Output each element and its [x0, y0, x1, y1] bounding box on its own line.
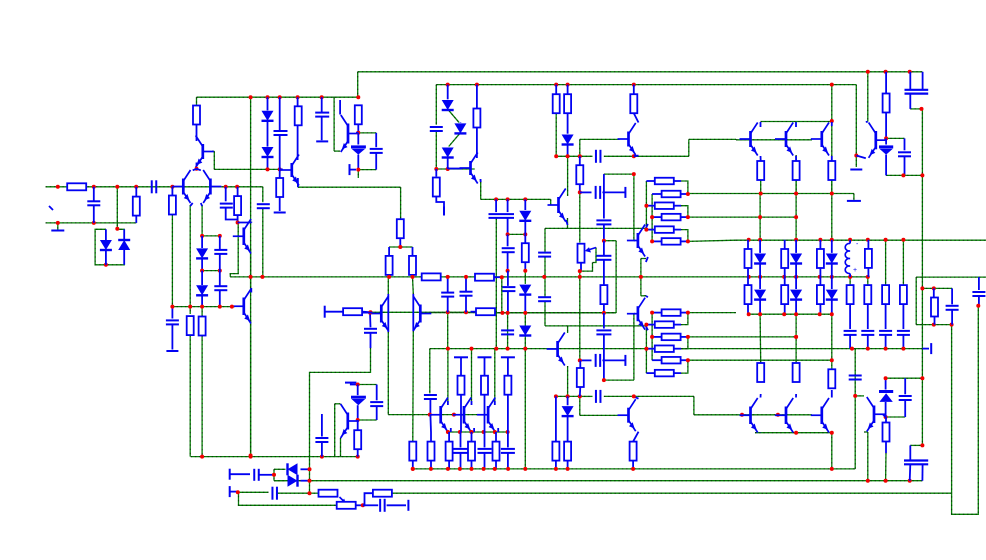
- wire: [310, 492, 319, 494]
- resistor R34: [828, 161, 835, 180]
- junction: [296, 95, 300, 99]
- junction: [602, 239, 606, 243]
- wire: [640, 259, 642, 296]
- junction: [434, 167, 438, 171]
- resistor ladder: [655, 321, 674, 328]
- resistor ladder: [655, 370, 674, 377]
- capacitor C37: [501, 330, 514, 334]
- resistor ladder: [662, 238, 681, 245]
- wire driver bias return: [310, 348, 371, 469]
- wire: [694, 414, 736, 416]
- junction: [542, 275, 546, 279]
- junction: [500, 311, 504, 315]
- capacitor output: [501, 449, 515, 453]
- terminal bar: [478, 356, 492, 358]
- junction: [494, 197, 498, 201]
- junction: [458, 430, 462, 434]
- wire: [357, 97, 359, 99]
- capacitor C27: [898, 152, 911, 156]
- junction: [554, 394, 558, 398]
- diode D5: [196, 248, 208, 258]
- junction: [578, 275, 582, 279]
- junction: [92, 185, 96, 189]
- wire upper-lower junction bus: [430, 348, 923, 350]
- junction: [639, 275, 643, 279]
- junction: [747, 238, 751, 242]
- wire emitter bus: [448, 431, 508, 433]
- wire: [633, 174, 635, 240]
- junction: [830, 358, 834, 362]
- resistor R43 trimmer: [337, 502, 356, 509]
- wire: [795, 155, 797, 217]
- junction: [644, 347, 648, 351]
- wire bus1: [412, 468, 855, 470]
- capacitor C40: [166, 320, 179, 324]
- wire: [681, 337, 688, 349]
- wire: [238, 492, 336, 505]
- junction: [200, 269, 204, 273]
- wire: [412, 277, 415, 294]
- wire: [447, 349, 449, 401]
- wire: [831, 121, 833, 194]
- resistor R13: [473, 109, 480, 128]
- terminal out+: [229, 469, 231, 480]
- capacitor C35: [272, 487, 277, 500]
- diode D9: [442, 148, 454, 158]
- junction: [932, 286, 936, 290]
- junction: [644, 228, 648, 232]
- resistor R24: [600, 285, 607, 304]
- diode D13: [562, 406, 574, 416]
- junction: [578, 394, 582, 398]
- junction: [188, 305, 192, 309]
- junction: [920, 286, 924, 290]
- junction: [218, 269, 222, 273]
- junction: [884, 238, 888, 242]
- junction: [578, 269, 582, 273]
- resistor output net: [882, 285, 889, 304]
- wire: [447, 313, 449, 349]
- transistor Q14: [618, 399, 636, 431]
- diode D6: [196, 285, 208, 295]
- junction: [650, 215, 654, 219]
- wire: [855, 85, 857, 156]
- wire: [855, 156, 857, 168]
- wire: [902, 240, 904, 285]
- resistor output net: [847, 285, 854, 304]
- resistor pair upper: [781, 249, 788, 268]
- resistor R15: [522, 243, 529, 262]
- wire: [544, 301, 546, 326]
- resistor output net: [864, 285, 871, 304]
- wire: [544, 228, 546, 252]
- junction: [650, 335, 654, 339]
- wire: [507, 313, 509, 349]
- resistor emitter: [428, 442, 435, 461]
- wire right bus 2: [951, 325, 953, 494]
- junction: [218, 305, 222, 309]
- junction: [506, 232, 510, 236]
- junction: [866, 238, 870, 242]
- capacitor C11 C12 pair: [489, 214, 515, 218]
- resistor R19: [553, 94, 560, 113]
- diode pair lower: [790, 290, 802, 300]
- wire: [435, 85, 437, 125]
- capacitor output net: [879, 331, 892, 335]
- junction: [782, 312, 786, 316]
- junction: [506, 467, 510, 471]
- junction: [686, 311, 690, 315]
- wire: [579, 139, 581, 156]
- junction: [794, 238, 798, 242]
- junction: [830, 192, 834, 196]
- transistor Q15 driver: [370, 296, 388, 331]
- junction: [747, 312, 751, 316]
- wire: [832, 193, 854, 195]
- junction: [236, 490, 240, 494]
- junction: [830, 467, 834, 471]
- junction: [632, 154, 636, 158]
- resistor R17: [343, 308, 362, 315]
- wire: [681, 360, 688, 373]
- junction: [56, 221, 60, 225]
- wire: [471, 349, 473, 401]
- wire: [340, 438, 342, 457]
- resistor ladder: [662, 191, 681, 198]
- junction: [908, 479, 912, 483]
- transistor Q25: [740, 398, 758, 433]
- wire: [387, 332, 389, 415]
- diode D15: [288, 475, 298, 487]
- wire: [358, 132, 376, 134]
- junction: [446, 347, 450, 351]
- junction: [794, 312, 798, 316]
- junction: [976, 304, 980, 308]
- capacitor C36: [380, 499, 385, 512]
- junction: [566, 154, 570, 158]
- junction: [884, 479, 888, 483]
- wire: [555, 113, 557, 156]
- wire: [604, 173, 634, 175]
- terminal: [407, 500, 409, 511]
- transistor Q16 driver: [413, 296, 431, 331]
- diode pair upper: [790, 254, 802, 264]
- wire: [238, 491, 269, 493]
- capacitor C3 bias: [274, 131, 288, 135]
- trimmer arrow: [587, 248, 597, 251]
- wire jog to main: [230, 223, 238, 277]
- wire: [795, 314, 797, 363]
- capacitor C21: [596, 330, 611, 334]
- wire: [853, 194, 855, 201]
- wire: [274, 468, 286, 470]
- junction: [235, 185, 239, 189]
- resistor pair lower: [817, 285, 824, 304]
- junction: [554, 467, 558, 471]
- resistor R18 series main: [422, 273, 441, 280]
- transistor Q12 VAS: [627, 225, 645, 257]
- junction: [758, 312, 762, 316]
- capacitor C15: [460, 292, 473, 296]
- junction: [644, 323, 648, 327]
- resistor R5: [295, 106, 302, 125]
- junction: [249, 95, 253, 99]
- wire: [357, 170, 359, 178]
- resistor R2: [133, 197, 140, 216]
- wire: [854, 349, 856, 396]
- wire: [436, 168, 474, 170]
- junction: [506, 347, 510, 351]
- junction: [866, 70, 870, 74]
- junction: [782, 275, 786, 279]
- wire: [189, 335, 191, 456]
- junction: [632, 394, 636, 398]
- resistor R40: [828, 369, 835, 388]
- zener Z3: [879, 392, 893, 402]
- wire: [886, 416, 906, 418]
- terminal C40: [166, 350, 178, 352]
- junction: [794, 215, 798, 219]
- junction: [411, 467, 415, 471]
- junction: [356, 168, 360, 172]
- zener Z1: [351, 147, 366, 155]
- zener Z4: [351, 397, 366, 405]
- wire: [579, 192, 581, 242]
- junction: [356, 455, 360, 459]
- wire lower base row: [495, 312, 616, 314]
- junction: [470, 467, 474, 471]
- terminal C23: [624, 355, 626, 366]
- wire: [567, 326, 569, 333]
- wire: [250, 277, 252, 288]
- resistor ladder: [655, 345, 674, 352]
- wire: [748, 313, 832, 315]
- wire: [604, 155, 689, 157]
- zener Z2: [879, 147, 893, 155]
- diode D16: [519, 326, 531, 336]
- wire: [250, 249, 252, 277]
- junction: [758, 275, 762, 279]
- capacitor C19: [596, 220, 611, 224]
- junction: [249, 455, 253, 459]
- wire: [358, 169, 376, 171]
- diode pair upper: [754, 254, 766, 264]
- resistor R9: [355, 105, 362, 124]
- junction: [920, 443, 924, 447]
- junction: [249, 454, 253, 458]
- junction: [320, 95, 324, 99]
- wire: [916, 324, 952, 326]
- junction: [278, 167, 282, 171]
- diode D4 bias: [262, 147, 274, 157]
- wire ladder left A: [645, 181, 647, 230]
- wire: [556, 155, 592, 157]
- wire: [604, 395, 634, 397]
- junction: [920, 376, 924, 380]
- resistor ladder: [662, 334, 681, 341]
- junction: [200, 234, 204, 238]
- capacitor C24: [364, 329, 377, 333]
- junction loop top: [115, 227, 119, 231]
- junction: [578, 190, 582, 194]
- junction: [387, 275, 391, 279]
- wire: [524, 271, 526, 284]
- resistor pair lower: [781, 285, 788, 304]
- terminal out-: [229, 486, 231, 497]
- transistor Q29: [341, 404, 359, 438]
- capacitor C39: [315, 438, 328, 442]
- junction: [500, 275, 504, 279]
- junction: [482, 430, 486, 434]
- wire: [885, 240, 887, 285]
- junction: [266, 167, 270, 171]
- resistor R36: [865, 249, 872, 268]
- junction: [854, 154, 858, 158]
- junction: [632, 172, 636, 176]
- resistor R33: [793, 161, 800, 180]
- junction: [446, 467, 450, 471]
- junction: [475, 83, 479, 87]
- capacitor C13: [502, 248, 515, 252]
- transistor Q19 output: [477, 398, 495, 433]
- wire: [171, 215, 173, 307]
- junction: [249, 275, 253, 279]
- wire: [688, 139, 690, 156]
- junction: [818, 312, 822, 316]
- wire: [795, 180, 797, 194]
- junction: [901, 173, 905, 177]
- junction: [794, 335, 798, 339]
- junction: [523, 197, 527, 201]
- capacitor C13b: [502, 287, 515, 291]
- wire: [309, 481, 311, 494]
- wire: [201, 307, 203, 317]
- junction: [566, 467, 570, 471]
- wire input gnd rail: [46, 222, 137, 224]
- wire right bus: [921, 109, 923, 446]
- capacitor output net: [897, 331, 910, 335]
- junction: [428, 413, 432, 417]
- resistor R20: [564, 94, 571, 113]
- wire: [867, 72, 869, 122]
- junction: [272, 473, 276, 477]
- resistor R14: [433, 178, 440, 197]
- diode D3 bias: [262, 111, 274, 121]
- junction: [356, 418, 360, 422]
- wire: [759, 194, 761, 240]
- wire VAS collector run lower: [545, 325, 646, 327]
- wire: [309, 469, 311, 480]
- resistor ballast: [458, 376, 465, 395]
- junction: [884, 136, 888, 140]
- junction: [523, 347, 527, 351]
- junction: [506, 197, 510, 201]
- capacitor C1 input: [87, 201, 100, 205]
- wiper arrow: [340, 497, 345, 502]
- capacitor C9: [370, 149, 383, 153]
- wire V+ rail top: [358, 71, 923, 73]
- resistor R42: [319, 490, 338, 497]
- wire ladder left B: [651, 194, 653, 241]
- junction: [554, 154, 558, 158]
- wire: [449, 134, 460, 147]
- wire: [400, 187, 402, 219]
- resistor R47: [199, 317, 206, 336]
- transistor Q3 diff: [203, 170, 221, 203]
- wire: [334, 150, 340, 152]
- diode D12: [562, 135, 574, 145]
- transistor Q10 mirror: [547, 333, 565, 366]
- junction: [901, 347, 905, 351]
- capacitor C22 series: [596, 390, 601, 403]
- wire: [579, 271, 581, 360]
- transistor Q21: [740, 123, 758, 156]
- wire: [212, 150, 214, 152]
- junction: [866, 275, 870, 279]
- resistor ladder: [662, 214, 681, 221]
- wire bias: [214, 168, 279, 170]
- junction: [446, 430, 450, 434]
- junction: [740, 413, 744, 417]
- junction: [266, 95, 270, 99]
- capacitor output: [454, 449, 468, 453]
- capacitor C33 electrolytic: [904, 461, 928, 465]
- resistor R22: [576, 165, 583, 184]
- resistor R46 series main: [475, 274, 494, 281]
- wire bus2: [274, 480, 922, 482]
- diode D8: [454, 123, 466, 133]
- junction: [830, 238, 834, 242]
- wire: [579, 396, 581, 415]
- capacitor C17 series: [596, 150, 601, 163]
- wire: [196, 97, 198, 105]
- resistor R41: [883, 423, 890, 442]
- wire: [910, 108, 922, 110]
- ground input: [51, 230, 64, 232]
- junction: [452, 413, 456, 417]
- capacitor C38: [370, 402, 383, 406]
- capacitor C29 zobel: [946, 306, 959, 310]
- junction: [932, 323, 936, 327]
- transistor Q4: [281, 155, 299, 186]
- wire: [580, 395, 593, 397]
- junction: [411, 275, 415, 279]
- resistor R21: [630, 94, 637, 113]
- junction Q15 base: [368, 311, 372, 315]
- resistor pair upper: [745, 249, 752, 268]
- wire: [831, 433, 833, 469]
- junction: [901, 238, 905, 242]
- junction: [830, 431, 834, 435]
- resistor R27: [552, 442, 559, 461]
- wire: [250, 320, 252, 456]
- wire: [688, 193, 832, 195]
- resistor R8: [187, 316, 194, 335]
- wire output base bus: [388, 414, 430, 416]
- transistor Q11: [618, 123, 636, 155]
- junction: [554, 83, 558, 87]
- wire: [57, 223, 59, 230]
- wire ladder left A: [645, 325, 647, 374]
- capacitor C8: [257, 204, 270, 208]
- junction: [632, 83, 636, 87]
- wire base bus top-right: [736, 139, 812, 141]
- wire: [429, 349, 431, 394]
- diode pair upper: [826, 254, 838, 264]
- resistor R10: [397, 219, 404, 238]
- wire: [580, 263, 593, 272]
- wire: [580, 138, 620, 140]
